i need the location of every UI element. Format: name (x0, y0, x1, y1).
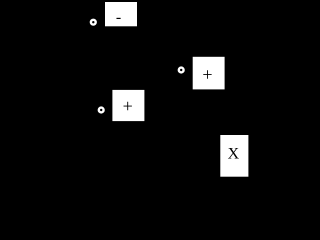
node A box (minus) (105, 2, 137, 26)
port circle of node B (179, 68, 184, 73)
node D box (X, bottom right) (220, 135, 248, 177)
node C box (plus, center) (112, 90, 144, 121)
port circle of node C (99, 108, 104, 113)
port circle of node A (91, 20, 96, 25)
svg-text:+: + (202, 65, 212, 85)
node B box (plus, right) (193, 57, 225, 90)
svg-text:-: - (116, 9, 121, 26)
svg-text:X: X (228, 145, 240, 162)
svg-text:+: + (123, 96, 133, 116)
